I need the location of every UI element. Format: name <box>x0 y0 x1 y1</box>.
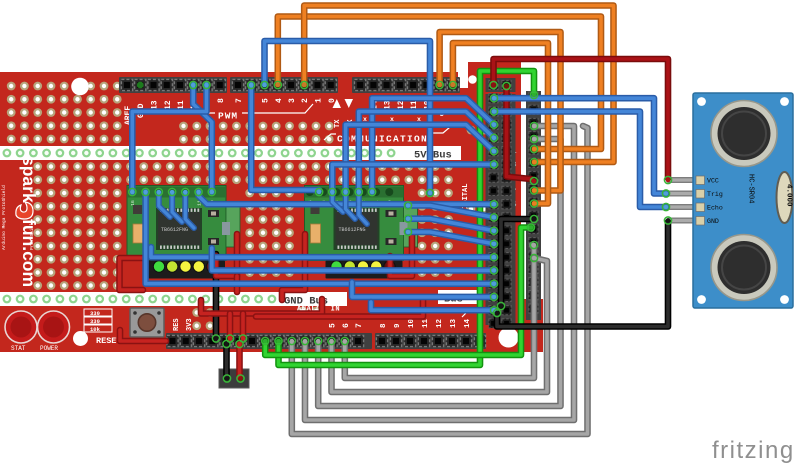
svg-text:4: 4 <box>275 98 284 103</box>
HC-SR04 sensor board <box>693 93 793 308</box>
wire sensor lead 4 <box>669 218 697 224</box>
svg-text:fritzing: fritzing <box>712 437 795 464</box>
svg-text:9: 9 <box>394 323 402 328</box>
LED strip U1 <box>148 260 225 278</box>
svg-text:3V3: 3V3 <box>186 318 194 331</box>
mount hole top-left <box>71 78 89 96</box>
wire sensor lead 2 <box>669 191 697 197</box>
wire blue stub u1-2 <box>172 193 182 222</box>
ultrasonic transducer R <box>711 235 777 301</box>
svg-text:330: 330 <box>90 318 100 325</box>
sensor pin pads and labels <box>696 176 723 225</box>
svg-text:4.000: 4.000 <box>785 184 793 207</box>
x x x labels <box>363 111 444 129</box>
wire red module2 left <box>282 234 305 300</box>
mount hole bottom-right <box>499 328 519 348</box>
svg-text:POWER: POWER <box>40 345 58 352</box>
holes right of module 2 <box>418 189 453 277</box>
wire blue L4 <box>371 302 494 310</box>
wire red to sensor VCC <box>494 59 669 178</box>
wire red module1 left <box>120 258 146 290</box>
wire orange 1 <box>278 17 601 150</box>
wire blue diag D3 <box>408 219 494 231</box>
mega pin number labels <box>508 148 516 312</box>
wire red module2 led <box>390 234 412 276</box>
sparkfun flame logo <box>16 202 33 219</box>
mount hole mid-left <box>73 331 88 346</box>
upper mid hole rows <box>179 122 334 144</box>
ultrasonic transducer T <box>711 101 777 167</box>
svg-text:5: 5 <box>262 98 271 103</box>
wire green 2 <box>265 228 531 356</box>
svg-text:HC-SR04: HC-SR04 <box>747 174 755 203</box>
module U1 pad numbers <box>130 200 216 206</box>
reset button <box>130 308 164 337</box>
top header strip 1 <box>119 77 227 93</box>
top pin labels <box>124 98 432 125</box>
bottom pin labels <box>329 318 473 328</box>
wire blue L5 <box>352 282 494 297</box>
resistor value labels <box>84 309 112 333</box>
svg-text:7: 7 <box>355 323 364 328</box>
wire orange 2 <box>304 6 613 163</box>
wire blue stub u2-2 <box>346 194 355 219</box>
wire gray 4 <box>305 126 574 420</box>
svg-text:1: 1 <box>315 98 324 103</box>
svg-text:spark: spark <box>19 156 39 203</box>
wire blue stub u2-3 <box>359 194 367 224</box>
svg-text:GND: GND <box>707 218 719 225</box>
wire red bottom bus <box>201 299 322 314</box>
5V bus holes <box>3 149 396 158</box>
svg-text:3: 3 <box>288 98 297 103</box>
protoshield board outline <box>0 62 543 352</box>
wire blue diag D4 <box>408 232 494 244</box>
wire blue to sensor Echo <box>494 112 666 208</box>
svg-text:RES: RES <box>173 318 181 331</box>
svg-text:VCC: VCC <box>707 178 719 185</box>
svg-text:6: 6 <box>342 323 351 328</box>
svg-text:13: 13 <box>450 318 458 328</box>
wire blue L3 <box>146 192 494 284</box>
svg-text:ProtoShield: ProtoShield <box>29 220 35 250</box>
wire black to sensor GND <box>497 222 668 327</box>
capacitors U1 <box>133 205 230 245</box>
wire gray 2 <box>332 258 548 392</box>
crystal 4.000 <box>777 172 793 223</box>
svg-text:14: 14 <box>464 318 472 328</box>
wire blue Wd <box>332 164 494 192</box>
svg-text:Arduino Mega ProtoShield: Arduino Mega ProtoShield <box>1 185 7 250</box>
wire blue to sensor Trig <box>494 98 666 193</box>
LED digit labels U2 <box>335 255 391 261</box>
wire blue stub u1-1 <box>159 193 170 217</box>
wire gray 1 <box>345 245 534 378</box>
GND pin green hole <box>137 82 144 89</box>
TB6612FNG breakout module U1 <box>127 186 240 261</box>
wire blue L1 <box>151 247 494 257</box>
GND bus strip right segment <box>438 290 478 304</box>
svg-text:Echo: Echo <box>707 205 723 212</box>
wire blue Wb <box>359 112 494 193</box>
wire blue L2 <box>212 248 494 270</box>
wire orange 4 <box>453 43 548 204</box>
5V bus strip <box>0 146 461 160</box>
module U2 top pads <box>306 188 394 196</box>
wire black internal <box>501 219 531 306</box>
left perfboard lower holes <box>33 162 121 290</box>
svg-text:PWM: PWM <box>218 111 238 122</box>
svg-text:11: 11 <box>422 318 430 328</box>
IC chip U2 (TB6612FNG) <box>334 208 380 250</box>
svg-text:7: 7 <box>235 98 244 103</box>
wire sensor lead 1 <box>669 177 697 183</box>
wire red drop 1 <box>227 314 234 337</box>
connection dots <box>129 81 672 382</box>
svg-text:fun.com: fun.com <box>19 219 39 287</box>
wire blue pin9 <box>132 84 206 192</box>
bottom header strip B <box>375 333 486 349</box>
misc holes <box>192 126 488 331</box>
svg-text:TB6612FNG: TB6612FNG <box>161 227 188 233</box>
TX RX arrows <box>333 99 342 108</box>
mid hole rows <box>126 162 453 184</box>
wire gray 5 <box>292 126 588 434</box>
wire blue L0 <box>199 192 494 204</box>
mount hole top-right <box>468 75 477 84</box>
wire green 1 <box>279 71 535 365</box>
svg-text:10k: 10k <box>90 326 101 333</box>
module U1 top pads <box>128 188 216 196</box>
wire red drop 2 <box>240 314 247 337</box>
wire blue pin10 <box>193 84 212 192</box>
wire sensor lead 3 <box>669 204 697 210</box>
wire red module1 led <box>216 234 237 276</box>
wire black module to header <box>213 254 220 336</box>
wire blue Wc <box>346 125 494 192</box>
svg-text:2: 2 <box>301 98 310 103</box>
corner silk line <box>462 308 480 317</box>
capacitors U2 <box>311 205 408 245</box>
POWER LED <box>38 311 70 343</box>
GND bus strip <box>0 292 347 306</box>
GND bus holes <box>3 295 277 304</box>
svg-text:5: 5 <box>329 323 338 328</box>
STAT POWER labels <box>11 345 58 352</box>
wire red reset A <box>120 330 166 341</box>
mega header strip right <box>526 91 541 320</box>
wire blue stub u2-1 <box>332 194 343 212</box>
bus labels <box>284 150 463 308</box>
wire black to connector <box>223 344 230 377</box>
wire blue stub u1-3 <box>185 193 194 228</box>
svg-text:Trig: Trig <box>707 191 723 198</box>
wire blue pin6 <box>251 84 319 190</box>
mega header strip left (double row) <box>486 78 516 328</box>
svg-text:8: 8 <box>217 98 226 103</box>
wire gray 3 <box>318 139 560 406</box>
holes between modules <box>245 189 294 277</box>
wire red internal <box>507 87 532 179</box>
2-pin connector J1 <box>219 369 249 388</box>
LEDs U1 <box>154 261 217 271</box>
IC chip U1 (TB6612FNG) <box>156 208 202 250</box>
LEDs U2 <box>331 261 394 271</box>
svg-text:TX: TX <box>334 119 342 128</box>
wire red to connector <box>236 344 243 377</box>
svg-text:330: 330 <box>90 310 100 317</box>
bottom header strip A <box>166 333 372 349</box>
module U2 pad numbers <box>308 200 394 206</box>
TB6612FNG breakout module U2 <box>305 186 418 261</box>
wire blue Wa <box>372 98 494 192</box>
svg-text:8: 8 <box>380 323 388 328</box>
LED digit labels U1 <box>158 255 214 261</box>
svg-text:12: 12 <box>436 318 444 328</box>
svg-text:TB6612FNG: TB6612FNG <box>339 227 366 233</box>
top header strip 3 <box>352 77 460 93</box>
left perfboard top holes <box>7 82 122 144</box>
top header strip 2 <box>230 77 338 93</box>
svg-text:STAT: STAT <box>11 345 26 352</box>
svg-text:COMMUNICATION: COMMUNICATION <box>337 134 428 145</box>
svg-text:10: 10 <box>408 318 416 328</box>
STAT LED <box>5 311 37 343</box>
wire red bottom bus 2 <box>256 299 423 317</box>
wire red module1 led b <box>234 276 241 292</box>
wire blue diag D2 <box>408 206 494 218</box>
LED strip U2 <box>326 260 403 278</box>
wire orange 3 <box>440 32 561 191</box>
wire blue pin5 loop <box>265 41 431 193</box>
